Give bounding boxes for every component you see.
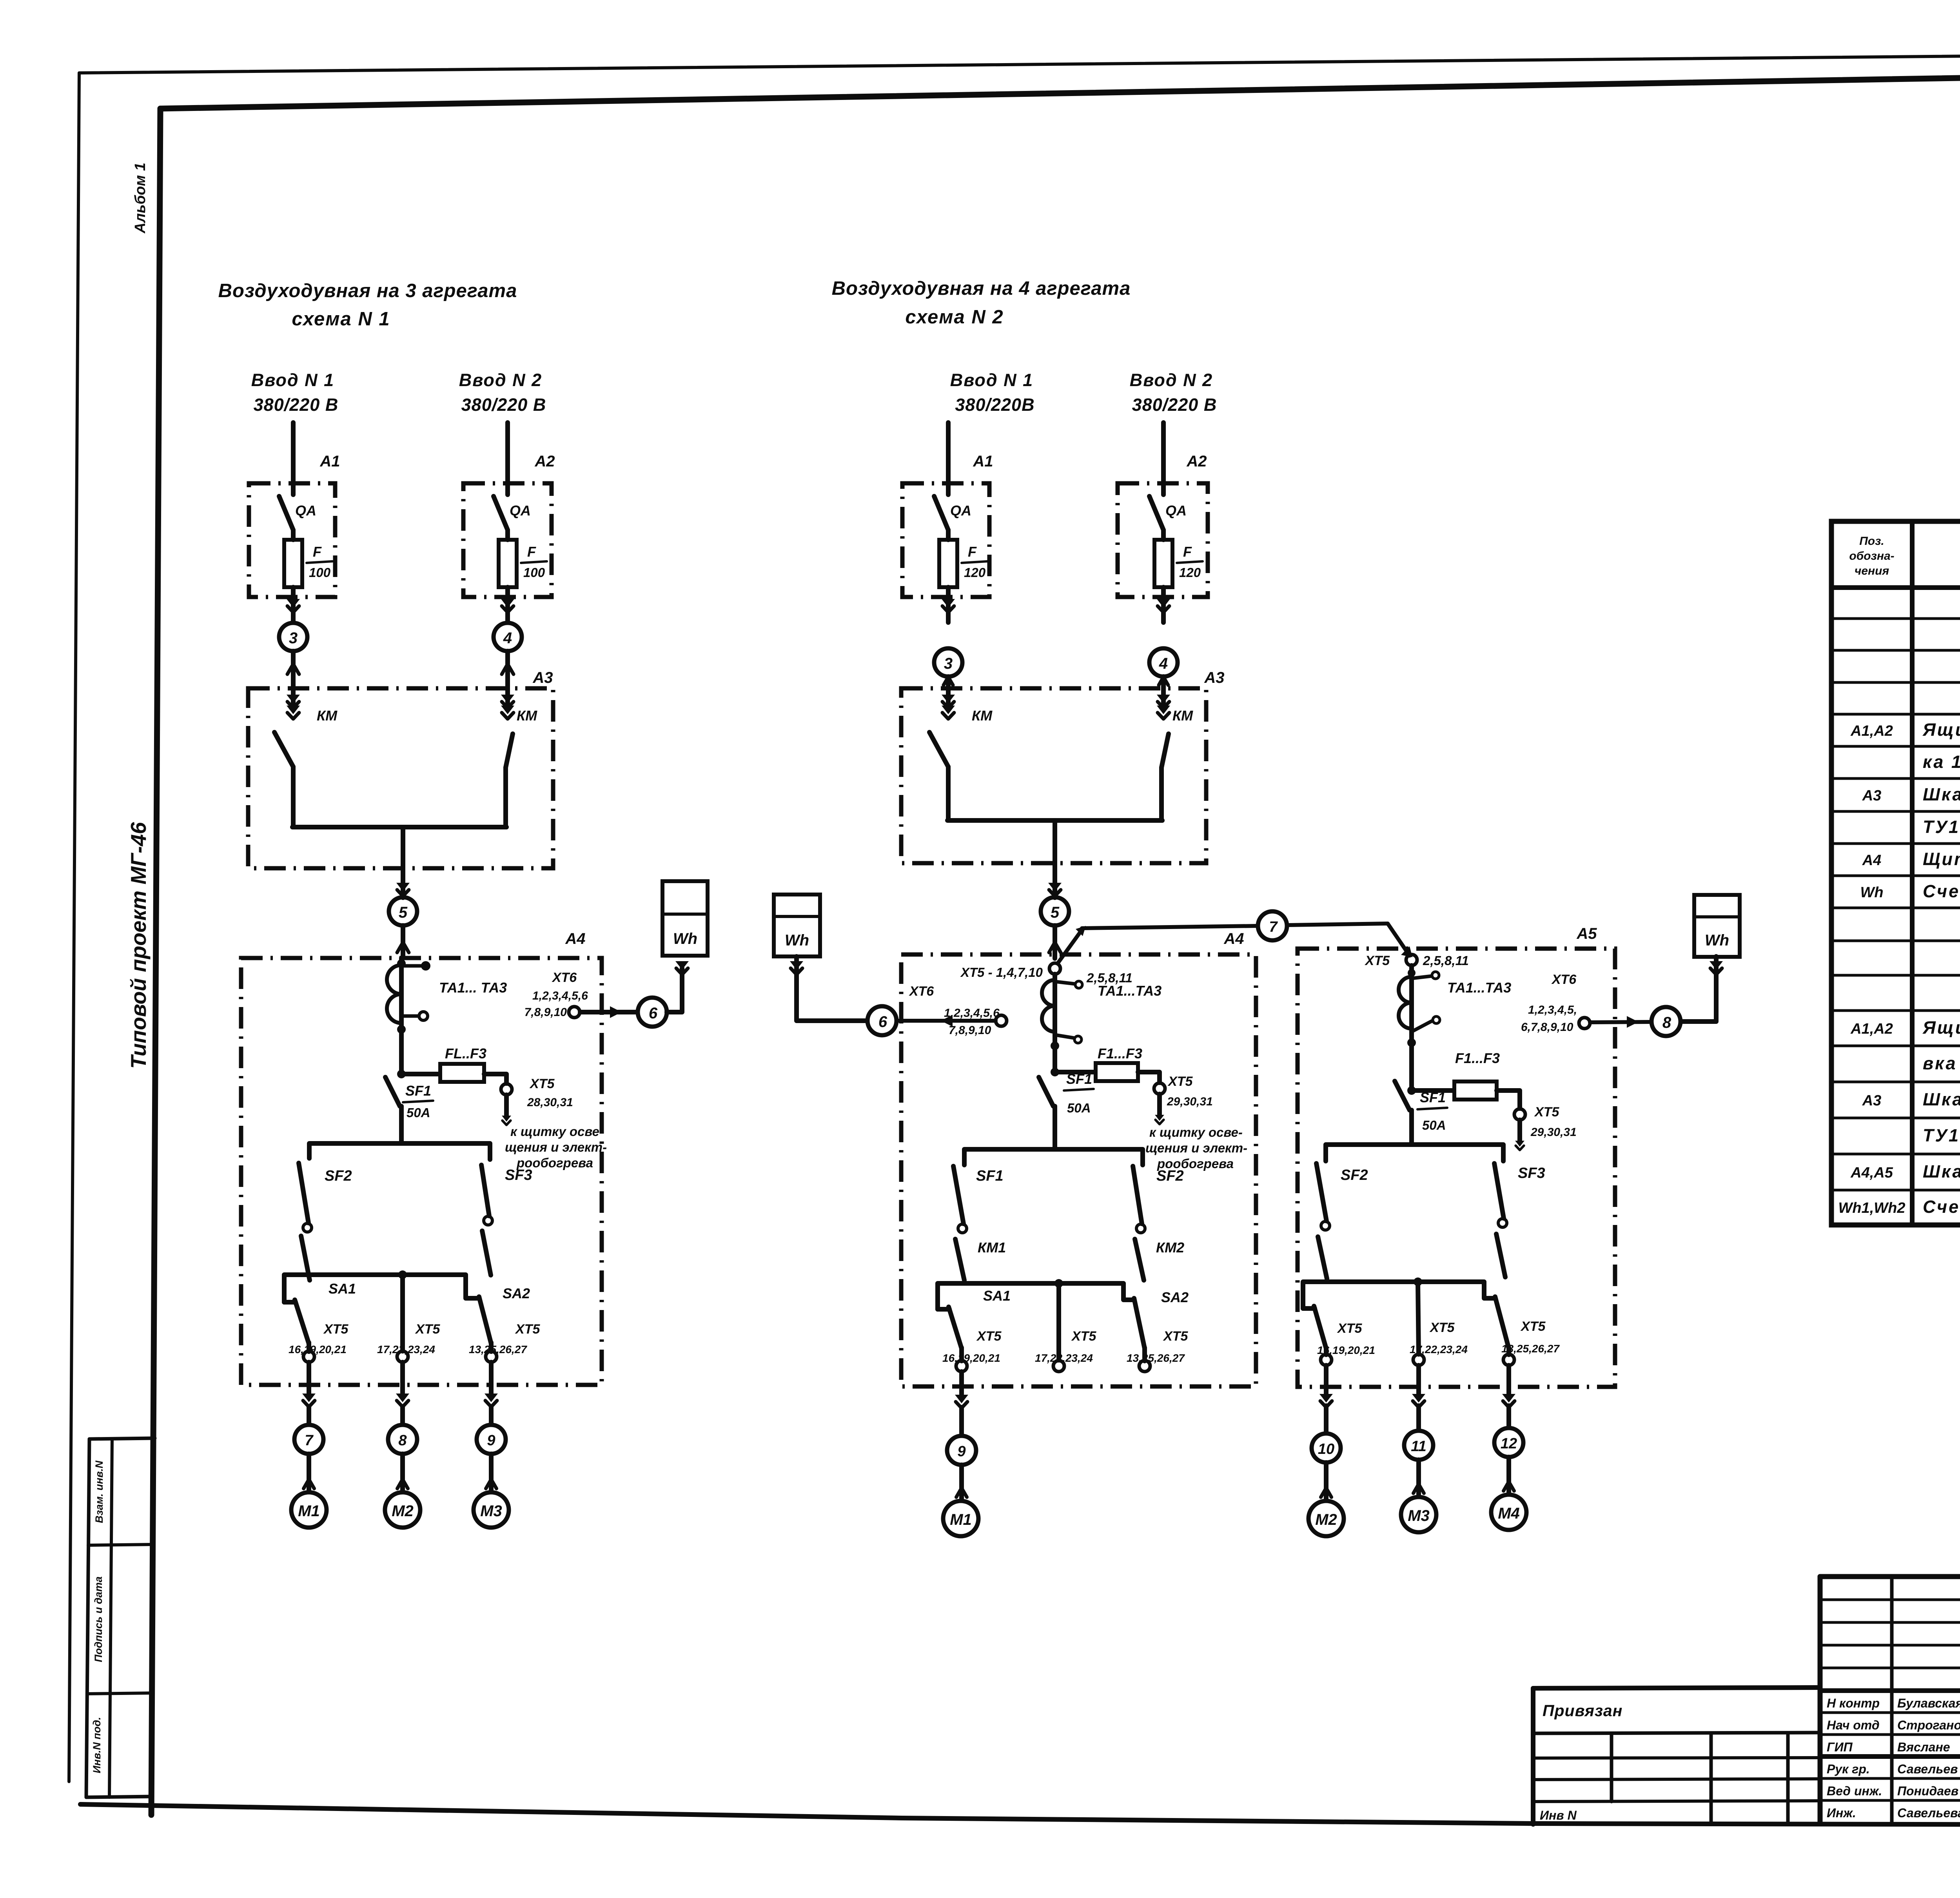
contactor KM2 [1135, 1239, 1144, 1280]
svg-text:КМ2: КМ2 [1156, 1239, 1184, 1256]
wire [1324, 1463, 1328, 1501]
wire [1497, 1091, 1520, 1109]
svg-text:50А: 50А [407, 1105, 430, 1120]
wire [959, 1407, 964, 1435]
svg-text:7,8,9,10: 7,8,9,10 [949, 1024, 991, 1037]
svg-text:Инж.: Инж. [1827, 1806, 1856, 1820]
meter Wh2 [774, 895, 820, 956]
svg-text:М1: М1 [298, 1502, 320, 1520]
wire [1056, 1283, 1061, 1360]
wire feeder [505, 423, 510, 495]
wire [797, 956, 866, 1021]
svg-text:ТА1... ТА3: ТА1... ТА3 [439, 980, 507, 996]
table row А1,А2 [1850, 1018, 1960, 1038]
disconnect switch QA [934, 496, 948, 530]
wire bus lighting [309, 1143, 490, 1159]
svg-text:М3: М3 [480, 1502, 502, 1520]
arrow [502, 1116, 511, 1121]
svg-text:9: 9 [487, 1432, 495, 1449]
svg-text:17,22,23,24: 17,22,23,24 [377, 1343, 435, 1355]
note к щитку освещения [1145, 1125, 1247, 1171]
node 4 [494, 623, 522, 651]
svg-text:16,19,20,21: 16,19,20,21 [289, 1343, 347, 1355]
svg-text:12: 12 [1501, 1435, 1517, 1452]
wire feeder [291, 423, 296, 495]
arrow [302, 1394, 316, 1402]
svg-text:ХТ5: ХТ5 [1071, 1329, 1096, 1344]
wire [1053, 1106, 1057, 1149]
wire [1388, 924, 1410, 956]
svg-text:обозна-: обозна- [1849, 550, 1894, 563]
contact [1318, 1237, 1327, 1279]
wire [401, 1072, 440, 1076]
blower panel A4 [901, 954, 1256, 1386]
label SF1/50A [1064, 1071, 1094, 1115]
svg-text:Савельев: Савельев [1897, 1762, 1958, 1776]
wire bus [1326, 1145, 1503, 1161]
terminal XT5 13,25,26,27 [1503, 1354, 1514, 1365]
svg-text:120: 120 [964, 565, 986, 580]
svg-text:380/220 В: 380/220 В [254, 395, 339, 415]
wire [291, 651, 296, 688]
arrow [1502, 1394, 1515, 1403]
switch box А2 [1118, 483, 1208, 597]
svg-text:КМ1: КМ1 [978, 1239, 1006, 1256]
svg-text:1,2,3,4,5,6: 1,2,3,4,5,6 [532, 989, 588, 1002]
arrow [1515, 1141, 1524, 1147]
node 8 [1651, 1007, 1681, 1036]
arrow [675, 961, 689, 970]
svg-text:7: 7 [1269, 919, 1278, 935]
motor М4 [1491, 1495, 1526, 1530]
wire [1324, 1348, 1328, 1355]
svg-text:5: 5 [1051, 904, 1060, 921]
table row continuation [1923, 1125, 1960, 1145]
wire [1142, 1348, 1147, 1361]
wire [667, 968, 682, 1012]
wire [505, 651, 510, 688]
svg-text:50А: 50А [1067, 1101, 1091, 1115]
terminal XT5 17,22,23,24 [1053, 1361, 1064, 1372]
svg-text:Строганов: Строганов [1897, 1718, 1960, 1732]
junction [1414, 1277, 1422, 1286]
arrow [942, 599, 955, 608]
input label Ввод N 2 [459, 370, 546, 415]
terminal XT5 - 1,4,7,10 [1049, 963, 1060, 974]
wire [400, 1454, 405, 1492]
wire main [399, 958, 404, 1074]
svg-text:F: F [313, 544, 322, 560]
svg-text:М4: М4 [1498, 1505, 1520, 1522]
terminal XT5 29,30,31 [1154, 1083, 1165, 1094]
svg-text:17,22,23,24: 17,22,23,24 [1035, 1352, 1093, 1364]
svg-text:Ввод N 2: Ввод N 2 [459, 370, 542, 390]
wire [291, 587, 296, 622]
node 6 [638, 998, 667, 1027]
svg-text:13,25,26,27: 13,25,26,27 [1501, 1343, 1560, 1355]
switch SA1 [295, 1300, 309, 1344]
terminal XT5 2,5,8,11 [1406, 954, 1417, 965]
svg-text:F: F [527, 544, 536, 560]
svg-text:4: 4 [1159, 655, 1168, 672]
svg-text:SF1: SF1 [405, 1083, 431, 1099]
switch SA2 [1495, 1297, 1509, 1348]
wire [1416, 1460, 1421, 1497]
svg-text:Wh: Wh [673, 930, 697, 947]
svg-text:120: 120 [1179, 565, 1201, 580]
svg-text:схема N 1: схема N 1 [292, 308, 390, 330]
svg-text:Савельева: Савельева [1897, 1806, 1960, 1820]
wire [1161, 587, 1166, 622]
svg-text:КМ: КМ [1172, 708, 1193, 724]
wire [1053, 820, 1057, 863]
node 5 [1041, 897, 1069, 925]
bottom-left stamp table [86, 1438, 155, 1797]
breaker SF3 [481, 1165, 492, 1225]
svg-text:ХТ5: ХТ5 [1520, 1319, 1546, 1334]
wire [1055, 1070, 1096, 1074]
node 10 [1312, 1433, 1341, 1463]
titleblock row Нач отд Строганов [1827, 1718, 1960, 1732]
selector link SA1-SA2 [1303, 1282, 1495, 1308]
svg-text:SF2: SF2 [1156, 1168, 1184, 1184]
fuse F1...F3 [1096, 1063, 1138, 1081]
svg-text:КМ: КМ [517, 708, 537, 724]
svg-text:Булавская: Булавская [1897, 1696, 1960, 1710]
wire [946, 587, 951, 622]
breaker SF1 [1395, 1081, 1410, 1110]
wire [946, 677, 951, 688]
svg-text:М2: М2 [1315, 1511, 1337, 1528]
svg-text:Шкаф воздуходувок ЩВ-150-72: Шкаф воздуходувок ЩВ-150-72 [1923, 1161, 1960, 1181]
svg-text:QA: QA [295, 503, 316, 519]
selector link SA1-SA2 [938, 1283, 1134, 1309]
svg-text:А4: А4 [1862, 852, 1882, 869]
arrow [790, 961, 803, 970]
wire [1324, 1406, 1328, 1433]
svg-text:F: F [968, 544, 977, 560]
junction [1054, 1279, 1063, 1288]
svg-text:8: 8 [1662, 1014, 1671, 1031]
svg-text:1,2,3,4,5,6: 1,2,3,4,5,6 [944, 1007, 1000, 1020]
wire [1053, 925, 1057, 958]
label XT5 16,19,20,21 [1317, 1321, 1375, 1356]
input label Ввод N 1 [251, 370, 339, 415]
svg-text:Нач отд: Нач отд [1827, 1718, 1880, 1732]
svg-text:Воздуходувная на 3 агрегата: Воздуходувная на 3 агрегата [218, 280, 517, 301]
motor М2 [1308, 1501, 1344, 1536]
arrow [1048, 883, 1062, 891]
selector link SA1-SA2 [284, 1275, 479, 1302]
svg-text:А4,А5: А4,А5 [1850, 1165, 1893, 1181]
wire [1157, 1094, 1162, 1116]
wire bus [964, 1149, 1143, 1165]
svg-text:ХТ5: ХТ5 [515, 1322, 540, 1337]
motor M1 [943, 1501, 978, 1536]
switch SA1 [1314, 1306, 1326, 1348]
wire [505, 587, 510, 622]
svg-text:Wh1,Wh2: Wh1,Wh2 [1838, 1200, 1906, 1216]
svg-text:А1,А2: А1,А2 [1850, 723, 1893, 739]
svg-text:Ящик типа ЯРП11-341-32У3, плав: Ящик типа ЯРП11-341-32У3, плавкая встав- [1922, 720, 1960, 740]
wire [401, 925, 405, 958]
svg-text:ХТ5: ХТ5 [323, 1322, 348, 1337]
svg-text:ТУ16 536.042-71: ТУ16 536.042-71 [1923, 817, 1960, 837]
svg-text:Взам. инв.N: Взам. инв.N [93, 1461, 105, 1523]
fuse F [499, 540, 517, 587]
current transformers TA1...TA3 [387, 961, 430, 1034]
arrow [396, 883, 410, 891]
input label Ввод N 1 [950, 370, 1035, 415]
svg-text:Рук гр.: Рук гр. [1827, 1762, 1870, 1776]
svg-text:ХТ5: ХТ5 [1167, 1074, 1193, 1089]
svg-text:Wh: Wh [1705, 932, 1729, 949]
titleblock row Н контр Булавская [1827, 1696, 1960, 1710]
junction [1407, 1086, 1416, 1095]
svg-text:А5: А5 [1576, 925, 1597, 942]
terminal XT5 17,22,23,24 [397, 1351, 408, 1362]
wire [1053, 863, 1057, 898]
wire [489, 1343, 494, 1352]
titleblock row ГИП Вяслане [1827, 1740, 1950, 1754]
switch SA2 [479, 1297, 491, 1344]
node 12 [1494, 1428, 1523, 1457]
arrow [486, 1479, 497, 1488]
arrow [955, 1395, 968, 1403]
node 4 [1149, 648, 1178, 677]
wire [1506, 1457, 1511, 1494]
wire [1412, 1088, 1454, 1093]
breaker SF1 [1039, 1077, 1053, 1106]
wire [489, 1454, 494, 1492]
contactor KM1 [955, 1239, 964, 1280]
table header Поз. обозначения [1849, 535, 1894, 577]
current transformers TA1...TA3 [1399, 969, 1440, 1047]
terminal XT5 13,25,26,27 [1139, 1361, 1150, 1372]
wire [401, 827, 405, 868]
arrow [304, 1479, 314, 1488]
svg-text:ТА1...ТА3: ТА1...ТА3 [1098, 983, 1161, 999]
wire [484, 1074, 506, 1083]
title block frame [1820, 1577, 1960, 1825]
svg-text:ХТ5: ХТ5 [1163, 1329, 1188, 1344]
wire [504, 1095, 509, 1116]
terminal XT6 [996, 1015, 1007, 1026]
wire main [1409, 965, 1414, 1091]
wire [1418, 1282, 1419, 1354]
svg-text:380/220 В: 380/220 В [1132, 395, 1217, 415]
svg-text:Вяслане: Вяслане [1897, 1740, 1950, 1754]
switch SA1 [949, 1307, 962, 1348]
motor М3 [1401, 1497, 1436, 1532]
svg-text:100: 100 [309, 565, 331, 580]
table row А3 [1862, 1089, 1960, 1109]
svg-text:А3: А3 [1204, 669, 1224, 686]
svg-text:SA2: SA2 [503, 1285, 530, 1301]
svg-text:М2: М2 [392, 1502, 414, 1520]
blower panel A5 [1298, 949, 1615, 1387]
wire feeder [946, 423, 951, 495]
arrow [941, 1015, 953, 1027]
svg-text:28,30,31: 28,30,31 [527, 1096, 573, 1109]
arrow [287, 599, 300, 608]
svg-text:SA2: SA2 [1161, 1289, 1189, 1305]
svg-text:схема N 2: схема N 2 [905, 307, 1004, 328]
node 9 [947, 1436, 976, 1465]
wire [489, 1406, 494, 1424]
svg-text:10: 10 [1318, 1441, 1334, 1457]
svg-text:Привязан: Привязан [1543, 1702, 1622, 1720]
arrow [1319, 1394, 1333, 1403]
motor М2 [385, 1492, 420, 1528]
wire [1506, 1365, 1511, 1399]
arrow [944, 677, 953, 685]
terminal XT6 [569, 1007, 580, 1018]
wire bus A3 [292, 825, 506, 829]
svg-text:щения и элект-: щения и элект- [1145, 1141, 1247, 1155]
wire [489, 1362, 494, 1397]
svg-text:А3: А3 [1862, 1092, 1882, 1109]
fuse F1...F3 [1454, 1081, 1497, 1100]
label XT6 1,2,3,4,5,6 7,8,9,10 [909, 984, 1000, 1037]
terminal XT5 17,22,23,24 [1413, 1354, 1424, 1365]
arrow [1049, 942, 1061, 953]
svg-text:ХТ5: ХТ5 [415, 1322, 440, 1337]
breaker SF2 [299, 1163, 312, 1232]
svg-text:7: 7 [305, 1432, 314, 1449]
wire [1590, 1022, 1651, 1022]
wire [898, 1019, 996, 1023]
node 9 [477, 1425, 506, 1454]
wire [399, 1106, 404, 1143]
wire [959, 1465, 964, 1500]
svg-text:17,22,23,24: 17,22,23,24 [1410, 1343, 1468, 1355]
svg-text:Ввод N 2: Ввод N 2 [1130, 370, 1213, 390]
wire [1506, 1348, 1511, 1355]
breaker SF2 [1316, 1163, 1330, 1230]
svg-text:Щит воздуходувок ЩВ-150-72: Щит воздуходувок ЩВ-150-72 [1923, 849, 1960, 869]
svg-text:А1: А1 [973, 453, 993, 470]
arrow [1157, 599, 1170, 608]
contactor KM left [274, 688, 300, 827]
svg-text:ХТ5 - 1,4,7,10: ХТ5 - 1,4,7,10 [960, 965, 1043, 980]
arrow [287, 664, 299, 674]
svg-text:Н контр: Н контр [1827, 1696, 1880, 1710]
input label Ввод N 2 [1130, 370, 1217, 415]
svg-text:А1: А1 [319, 453, 340, 470]
arrow [1159, 677, 1168, 685]
label XT5 28,30,31 [527, 1076, 573, 1109]
wire [307, 1362, 311, 1397]
meter Wh [1694, 895, 1740, 957]
table row А4 [1862, 849, 1960, 869]
fuse F [284, 540, 302, 587]
arrow [1504, 1482, 1514, 1491]
node 3 [934, 648, 962, 677]
svg-text:16,19,20,21: 16,19,20,21 [942, 1352, 1000, 1364]
svg-text:Типовой проект МГ-46: Типовой проект МГ-46 [126, 822, 151, 1069]
junction [397, 1070, 406, 1078]
svg-text:Ящик типа ЯРП11-341-32У3 плавк: Ящик типа ЯРП11-341-32У3 плавкая вста- [1922, 1018, 1960, 1038]
svg-text:ХТ5: ХТ5 [529, 1076, 555, 1091]
arrow [396, 1394, 409, 1402]
svg-text:FL..F3: FL..F3 [445, 1045, 486, 1062]
terminal XT6 [1579, 1018, 1590, 1029]
arrow [956, 1488, 967, 1497]
arrow [502, 664, 514, 674]
svg-text:ХТ5: ХТ5 [1337, 1321, 1362, 1336]
svg-text:Воздуходувная на 4 агрегата: Воздуходувная на 4 агрегата [832, 278, 1131, 299]
svg-text:Счетчик активной энергии СА4У: Счетчик активной энергии СА4У [1923, 1197, 1960, 1217]
svg-text:50А: 50А [1422, 1118, 1446, 1132]
svg-text:А2: А2 [1186, 453, 1207, 470]
svg-text:Вед инж.: Вед инж. [1827, 1784, 1882, 1798]
svg-text:SA1: SA1 [983, 1288, 1011, 1304]
node 6 [867, 1006, 897, 1035]
svg-text:ТУ16 538.042-71: ТУ16 538.042-71 [1923, 1125, 1960, 1145]
label XT5 13,25,26,27 [469, 1322, 540, 1355]
fuse label F/120 [962, 544, 987, 580]
wire [400, 1362, 405, 1397]
current transformers TA1...TA3 [1042, 980, 1082, 1050]
svg-text:Шкаф управления типа ШУ8253-22: Шкаф управления типа ШУ8253-22А2 [1923, 784, 1960, 804]
svg-text:щения и элект-: щения и элект- [505, 1140, 607, 1154]
svg-text:7,8,9,10: 7,8,9,10 [524, 1006, 567, 1019]
label XT5 16,19,20,21 [289, 1322, 348, 1355]
svg-text:ХТ5: ХТ5 [1365, 953, 1390, 968]
svg-text:3: 3 [289, 630, 298, 647]
svg-text:Поз.: Поз. [1859, 535, 1884, 548]
disconnect switch QA [1149, 496, 1163, 530]
fuse label F/100 [307, 544, 332, 580]
contactor KM right [501, 688, 514, 827]
table row А4,А5 [1850, 1161, 1960, 1181]
scheme 2 title [832, 278, 1131, 328]
svg-text:чения: чения [1855, 564, 1889, 577]
switch box А1 [902, 483, 989, 597]
terminal XT5 16,19,20,21 [303, 1351, 314, 1362]
arrow [1401, 946, 1412, 957]
switch box А1 [249, 483, 335, 597]
svg-text:А3: А3 [1862, 788, 1882, 804]
arrow [610, 1006, 622, 1018]
terminal XT5 13,25,26,27 [486, 1351, 497, 1362]
svg-text:Wh: Wh [785, 932, 809, 949]
svg-text:А3: А3 [532, 669, 553, 686]
wire [1161, 677, 1166, 688]
wire feeder [1161, 423, 1166, 495]
element table grid [1831, 521, 1960, 1225]
wire to meter node [580, 1010, 636, 1014]
svg-text:13,25,26,27: 13,25,26,27 [1127, 1352, 1185, 1364]
wire bus A3 [947, 818, 1162, 823]
label XT5 17,22,23,24 [377, 1322, 440, 1355]
svg-text:F: F [1183, 544, 1192, 560]
svg-text:6: 6 [649, 1005, 658, 1022]
wire [959, 1348, 964, 1361]
svg-text:Ввод N 1: Ввод N 1 [251, 370, 334, 390]
contactor KM right [1157, 688, 1170, 820]
terminal XT5 29,30,31 [1514, 1109, 1525, 1120]
svg-text:100: 100 [523, 565, 545, 580]
svg-text:380/220В: 380/220В [955, 395, 1034, 415]
arrow [1414, 1484, 1424, 1493]
table row Wh1,Wh2 [1838, 1197, 1960, 1217]
wire [1287, 924, 1388, 925]
arrow [1627, 1016, 1639, 1028]
svg-text:Подпись и дата: Подпись и дата [93, 1577, 104, 1662]
wire [1324, 1365, 1328, 1399]
